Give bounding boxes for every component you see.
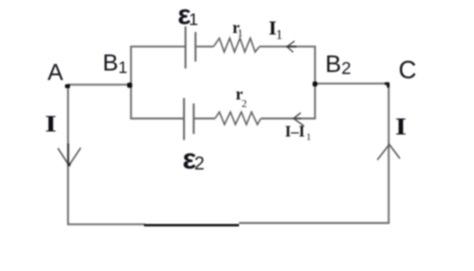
battery E2 left plate — [183, 98, 185, 140]
wire battery E2 to resistor r2 — [194, 118, 215, 120]
wire resistor r2 to B2 — [261, 118, 315, 120]
resistor r1 zigzag — [214, 38, 260, 52]
svg-text:1: 1 — [237, 28, 243, 40]
svg-text:I: I — [45, 111, 57, 137]
svg-text:I–I: I–I — [285, 123, 305, 140]
dark wire segment at I-I1 arrow — [293, 118, 301, 120]
arrowhead tip blob left wire — [67, 163, 70, 166]
svg-text:1: 1 — [276, 27, 283, 42]
wire bottom middle black segment — [144, 224, 239, 226]
node B2 junction dot — [313, 82, 318, 87]
node A junction dot — [65, 84, 70, 88]
node C corner mark — [385, 82, 390, 87]
wire bottom right gray segment — [239, 222, 389, 224]
wire resistor r1 to B2 — [259, 46, 315, 48]
wire B2 to C — [315, 83, 389, 85]
wire B2 vertical — [314, 46, 316, 120]
battery E1 right plate — [195, 32, 197, 62]
svg-text:1: 1 — [306, 133, 311, 143]
arrowhead current I downward on left wire — [58, 148, 81, 166]
resistor r2 zigzag — [215, 112, 261, 125]
battery E2 right plate — [193, 104, 195, 135]
svg-text:2: 2 — [242, 99, 247, 110]
arrowhead current I-I1 pointing left on bottom branch — [294, 113, 304, 126]
svg-text:C: C — [399, 57, 417, 85]
arrowhead current I upward on right wire — [377, 144, 400, 160]
svg-text:2: 2 — [194, 152, 204, 173]
wire bottom left gray segment — [67, 223, 145, 225]
wire left vertical A down — [67, 85, 69, 225]
wire bottom branch left (B1 to battery E2) — [131, 118, 184, 120]
wire top branch left (B1 to battery E1) — [131, 46, 186, 48]
node B1 junction dot — [127, 83, 132, 88]
svg-text:I: I — [395, 113, 406, 140]
battery E1 left plate — [185, 27, 187, 69]
wire right vertical C down — [388, 84, 390, 224]
svg-text:1: 1 — [189, 10, 198, 29]
wire battery E1 to resistor r1 — [196, 46, 214, 48]
svg-text:A: A — [48, 59, 64, 85]
arrowhead current I1 pointing left on top branch — [287, 41, 295, 52]
wire B1 vertical — [130, 46, 132, 120]
dark wire segment at I1 arrow — [287, 46, 297, 48]
arrow shaft dark segment left wire — [67, 144, 69, 165]
svg-text:B2: B2 — [325, 51, 351, 78]
svg-text:B1: B1 — [103, 50, 128, 77]
wire A to B1 — [68, 84, 132, 86]
